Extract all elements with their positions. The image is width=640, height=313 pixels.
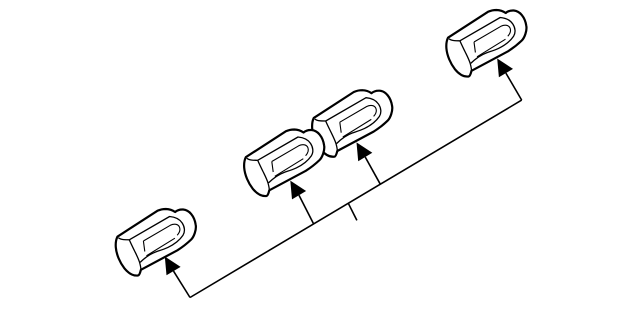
leader right branch segment (506, 73, 522, 100)
part retainer ML (lower middle) (244, 130, 324, 197)
arrowhead to part MR (357, 142, 373, 161)
arrowhead to part TR (497, 59, 513, 78)
leader main line (190, 100, 522, 297)
leader branch to MR (365, 157, 380, 184)
part retainer MR (upper middle) (312, 90, 392, 157)
part retainer BL (bottom left) (116, 209, 196, 276)
part retainer TR (top right) (446, 10, 526, 77)
leader branch to ML (299, 195, 314, 224)
arrowhead to part ML (290, 181, 306, 200)
leader left branch segment (174, 271, 191, 297)
label tick on main line (348, 203, 357, 220)
arrowhead to part BL (165, 257, 181, 276)
